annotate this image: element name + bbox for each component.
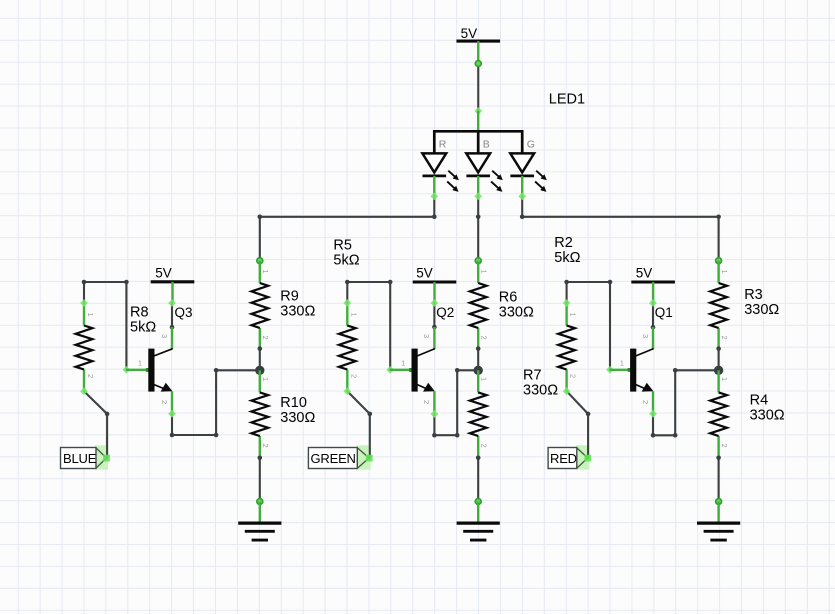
wire 5V to Q2 collector (431, 299, 439, 329)
resistor R2 (558, 303, 577, 392)
svg-text:R10: R10 (280, 395, 307, 411)
svg-text:1: 1 (401, 359, 405, 368)
label R3 value (744, 287, 779, 318)
wire LED1 red cathode to R9 (257, 192, 438, 263)
svg-text:R2: R2 (554, 235, 573, 251)
svg-text:2: 2 (261, 444, 270, 448)
svg-text:2: 2 (569, 374, 578, 378)
svg-text:R9: R9 (280, 289, 299, 305)
label R9 value (280, 289, 315, 320)
svg-text:2: 2 (720, 444, 729, 448)
svg-text:5V: 5V (155, 266, 172, 281)
svg-text:3: 3 (641, 334, 650, 338)
ground right (697, 502, 740, 541)
svg-text:5V: 5V (416, 266, 433, 281)
svg-text:2: 2 (641, 400, 650, 404)
wire Q2 emitter to R6/R7 junction (431, 368, 474, 438)
svg-text:3: 3 (160, 334, 169, 338)
svg-text:1: 1 (720, 377, 729, 381)
svg-text:B: B (483, 138, 490, 150)
power +5V Q3 collector supply (151, 266, 195, 303)
svg-text:Q1: Q1 (655, 305, 673, 320)
svg-text:Q2: Q2 (436, 305, 454, 320)
label R6 value (499, 289, 534, 320)
svg-text:5kΩ: 5kΩ (333, 253, 359, 269)
wire 5V supply to LED1 common anode (474, 61, 482, 115)
transistor Q3 (NPN) (126, 327, 172, 414)
resistor R6 (470, 261, 489, 349)
power +5V Q1 collector supply (631, 266, 675, 304)
wire R2 to Q1 base (563, 280, 614, 374)
wire Q3 emitter to R9/R10 junction (168, 368, 255, 437)
input flag RED (548, 445, 589, 469)
label R5 value (333, 238, 359, 269)
wire R5 to GREEN input (343, 387, 372, 461)
input flag BLUE (61, 445, 109, 469)
svg-text:G: G (527, 138, 535, 150)
svg-text:2: 2 (261, 336, 270, 340)
svg-text:R6: R6 (499, 289, 518, 305)
wire R8 to BLUE input (80, 387, 110, 461)
ground left (238, 502, 281, 541)
wire R2 to RED input (563, 387, 592, 461)
svg-text:2: 2 (349, 374, 358, 378)
svg-text:R4: R4 (750, 393, 769, 409)
svg-text:1: 1 (620, 359, 624, 368)
svg-text:330Ω: 330Ω (744, 302, 779, 318)
svg-text:330Ω: 330Ω (280, 304, 315, 320)
svg-text:1: 1 (86, 313, 95, 317)
node junction R3/R4/Q1-emitter (714, 366, 723, 375)
label R8 value (130, 305, 156, 336)
svg-text:1: 1 (480, 377, 489, 381)
svg-text:Q3: Q3 (175, 305, 193, 320)
svg-text:1: 1 (720, 270, 729, 274)
svg-text:1: 1 (261, 377, 270, 381)
wire 5V to Q3 collector (168, 299, 176, 329)
wire R6 to junction (476, 346, 481, 370)
wire R4 to ground (716, 456, 722, 505)
resistor R7 (470, 370, 489, 458)
svg-text:RED: RED (550, 451, 577, 466)
power +5V top (456, 26, 500, 64)
resistor R8 (76, 303, 95, 392)
wire Q1 emitter to R3/R4 junction (649, 368, 714, 438)
wire LED1 blue cathode to R6 (474, 192, 482, 263)
input flag GREEN (308, 445, 370, 469)
resistor R3 (710, 261, 729, 349)
ground middle (457, 502, 500, 541)
svg-text:R3: R3 (744, 287, 763, 303)
svg-text:5kΩ: 5kΩ (554, 250, 580, 266)
svg-text:R: R (439, 138, 447, 150)
svg-text:330Ω: 330Ω (280, 410, 315, 426)
wire R10 to ground (257, 456, 263, 505)
svg-text:5kΩ: 5kΩ (130, 320, 156, 336)
RGB LED LED1 (422, 111, 546, 197)
svg-text:R7: R7 (523, 368, 542, 384)
node junction R9/R10/Q3-emitter (255, 366, 264, 375)
transistor Q2 (NPN) (390, 327, 435, 414)
svg-text:5V: 5V (461, 26, 478, 41)
svg-text:BLUE: BLUE (63, 451, 97, 466)
svg-text:GREEN: GREEN (311, 451, 356, 466)
svg-text:2: 2 (720, 336, 729, 340)
wire LED1 green cathode to R3 (518, 192, 721, 263)
svg-text:1: 1 (349, 313, 358, 317)
label R7 value (523, 368, 558, 399)
wire R7 to ground (475, 456, 481, 505)
svg-text:1: 1 (569, 313, 578, 317)
wire R3 to junction (716, 346, 721, 370)
svg-text:2: 2 (86, 374, 95, 378)
svg-text:2: 2 (480, 444, 489, 448)
transistor Q1 (NPN) (610, 327, 654, 414)
node junction R6/R7/Q2-emitter (474, 366, 483, 375)
svg-text:2: 2 (160, 400, 169, 404)
svg-text:1: 1 (261, 270, 270, 274)
resistor R5 (339, 303, 358, 392)
svg-text:330Ω: 330Ω (750, 408, 785, 424)
svg-text:1: 1 (480, 270, 489, 274)
svg-text:330Ω: 330Ω (523, 383, 558, 399)
svg-text:2: 2 (422, 400, 431, 404)
wire R5 to Q2 base (343, 280, 394, 374)
resistor R4 (710, 370, 729, 458)
svg-text:2: 2 (480, 336, 489, 340)
svg-text:330Ω: 330Ω (499, 304, 534, 320)
power +5V Q2 collector supply (413, 266, 457, 304)
svg-text:LED1: LED1 (549, 92, 585, 108)
resistor R9 (251, 261, 270, 349)
wire R9 to junction (258, 346, 263, 370)
svg-text:R5: R5 (333, 238, 352, 254)
wire R8 to Q3 base (80, 280, 130, 374)
svg-text:1: 1 (138, 359, 142, 368)
svg-text:R8: R8 (130, 305, 149, 321)
label R2 value (554, 235, 580, 266)
wire 5V to Q1 collector (649, 299, 657, 329)
resistor R10 (251, 370, 270, 458)
svg-text:5V: 5V (636, 266, 653, 281)
svg-text:3: 3 (422, 334, 431, 338)
label R10 value (280, 395, 315, 426)
label R4 value (750, 393, 785, 424)
